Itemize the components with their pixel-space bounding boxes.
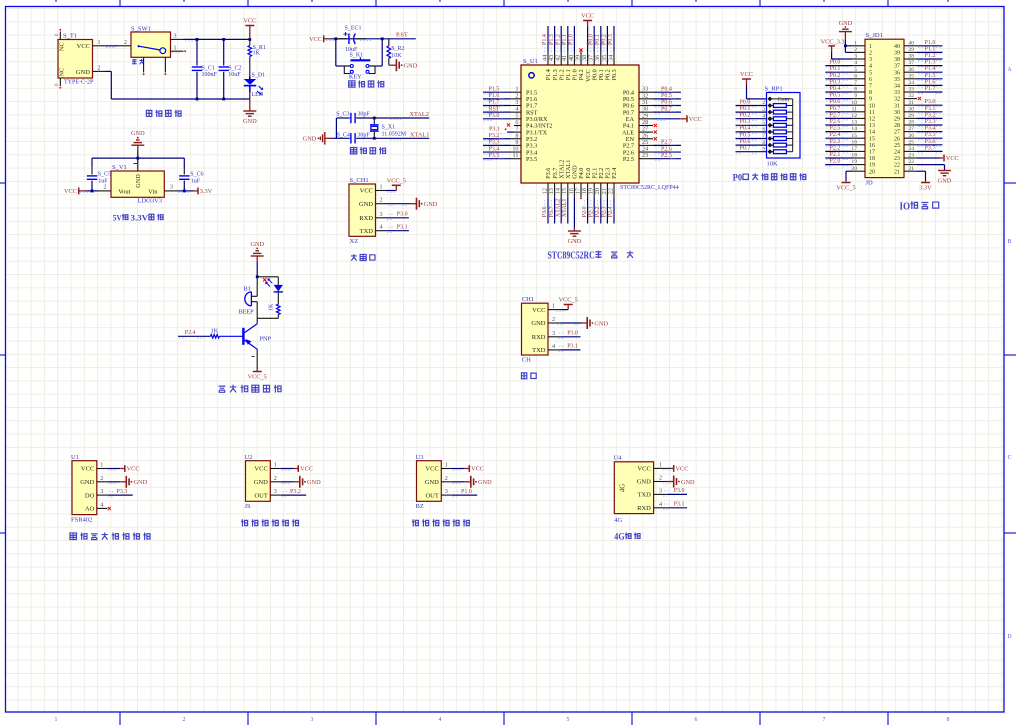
svg-text:VCC: VCC <box>127 466 140 473</box>
svg-text:4: 4 <box>380 224 383 231</box>
connector S_T1 TYPE-C-2P body <box>58 40 93 79</box>
svg-text:GND: GND <box>303 136 317 143</box>
svg-text:3: 3 <box>854 54 857 60</box>
svg-text:GND: GND <box>307 479 321 486</box>
svg-text:2: 2 <box>445 475 448 482</box>
svg-text:P0.6: P0.6 <box>661 100 672 106</box>
wire key left branch <box>335 39 337 66</box>
S_V1 pin 2 Vout stub <box>98 190 111 192</box>
svg-text:VCC_5: VCC_5 <box>387 178 406 185</box>
svg-text:JS: JS <box>245 503 252 510</box>
caption infrared obstacle module <box>412 519 469 526</box>
svg-text:32: 32 <box>909 93 915 99</box>
svg-text:GND: GND <box>250 241 264 248</box>
diode LED alarm <box>277 277 279 285</box>
module U1 body <box>72 461 97 515</box>
svg-text:S_R2: S_R2 <box>391 46 404 52</box>
svg-text:P1.3: P1.3 <box>925 60 936 66</box>
svg-text:3: 3 <box>170 185 173 191</box>
svg-text:P3.5: P3.5 <box>489 153 500 159</box>
junction C6 <box>183 190 186 193</box>
switch S_SW1 body <box>131 32 171 57</box>
connector S_CH1 download port body <box>349 184 376 236</box>
svg-text:S_K1: S_K1 <box>350 53 364 59</box>
connector CH1 serial port body <box>522 303 549 355</box>
svg-text:21: 21 <box>894 169 900 175</box>
svg-text:P2.1: P2.1 <box>588 206 594 217</box>
svg-text:3: 3 <box>869 57 872 63</box>
S_SW1 pin 3 stub <box>171 38 184 40</box>
svg-text:27: 27 <box>894 130 900 136</box>
svg-text:22: 22 <box>607 188 614 194</box>
svg-text:8: 8 <box>947 717 950 723</box>
svg-text:10K: 10K <box>391 53 402 59</box>
svg-text:8: 8 <box>869 90 872 96</box>
svg-text:1: 1 <box>380 184 383 191</box>
svg-text:S_RP1: S_RP1 <box>765 86 783 93</box>
node top of alarm branches <box>256 275 259 278</box>
svg-text:26: 26 <box>909 133 915 139</box>
svg-text:39: 39 <box>909 47 915 53</box>
svg-text:P3.0: P3.0 <box>567 331 578 337</box>
svg-text:P0.1: P0.1 <box>830 66 841 72</box>
XZ pin3 wire net P3.0 <box>386 217 409 219</box>
svg-text:VCC_3.3: VCC_3.3 <box>821 39 845 46</box>
svg-text:P2.3: P2.3 <box>830 139 841 145</box>
connector S_JD1 body <box>865 39 904 177</box>
svg-text:P3.6: P3.6 <box>925 139 936 145</box>
svg-text:34: 34 <box>894 84 900 90</box>
svg-text:5: 5 <box>854 67 857 73</box>
svg-text:XTAL1: XTAL1 <box>562 199 568 218</box>
svg-text:S_X1: S_X1 <box>382 125 396 131</box>
svg-text:VCC: VCC <box>689 116 702 123</box>
JD1 pin 22 to GND <box>917 164 945 166</box>
caption P0 pull-up resistor circuit <box>733 173 806 183</box>
svg-text:U4: U4 <box>614 455 623 462</box>
svg-text:P1.2: P1.2 <box>555 34 561 45</box>
svg-text:36: 36 <box>894 70 900 76</box>
svg-text:40: 40 <box>894 44 900 50</box>
XZ pin1 wire to VCC_5 <box>386 190 396 192</box>
svg-text:P3.1: P3.1 <box>674 502 685 508</box>
svg-text:10: 10 <box>869 103 875 109</box>
svg-text:1uF: 1uF <box>191 179 201 185</box>
junction rail-C1 <box>196 38 199 41</box>
caption 4G module <box>614 532 640 542</box>
RP1 pin 1 Com entry <box>767 96 772 101</box>
svg-text:1: 1 <box>98 40 101 46</box>
svg-text:12: 12 <box>869 117 875 123</box>
capacitor S_C6 1uF <box>183 158 185 167</box>
svg-text:1K: 1K <box>253 51 261 57</box>
svg-text:P1.6: P1.6 <box>925 79 936 85</box>
svg-text:AO: AO <box>85 506 95 513</box>
svg-text:4G: 4G <box>614 532 624 542</box>
svg-text:6: 6 <box>695 717 698 723</box>
svg-text:P1.1: P1.1 <box>562 34 568 45</box>
svg-text:OUT: OUT <box>254 492 267 499</box>
svg-text:S_CH1: S_CH1 <box>350 177 369 184</box>
caption IO expansion port <box>900 201 939 212</box>
svg-text:3: 3 <box>311 717 314 723</box>
wire XTAL1 lower line <box>331 137 349 139</box>
svg-text:S_C4: S_C4 <box>337 133 350 139</box>
U4 pin2 wire to GND <box>668 481 674 483</box>
svg-text:P3.5: P3.5 <box>526 156 537 163</box>
junction bottom rail C1 <box>196 98 199 101</box>
U4 pin3 wire net P3.0 <box>668 493 687 495</box>
junction rail-C2 <box>222 38 225 41</box>
svg-text:VCC: VCC <box>637 466 650 473</box>
junction xtal1 <box>373 137 376 140</box>
JD1 pin 21 to 3.3V <box>917 170 926 172</box>
svg-text:1K: 1K <box>211 328 219 334</box>
svg-text:3: 3 <box>174 34 177 40</box>
svg-text:P1.4: P1.4 <box>925 66 936 72</box>
svg-text:P1.4: P1.4 <box>542 34 548 45</box>
svg-text:1: 1 <box>445 462 448 469</box>
svg-text:P0.3: P0.3 <box>830 79 841 85</box>
svg-text:P0.7: P0.7 <box>740 146 751 152</box>
svg-text:P2.0: P2.0 <box>582 206 588 217</box>
junction rail-gnd <box>136 157 139 160</box>
svg-text:XTAL2: XTAL2 <box>555 199 561 218</box>
svg-text:P3.7: P3.7 <box>925 145 936 151</box>
buzzer B1 BEEP <box>256 277 258 297</box>
svg-text:P2.7: P2.7 <box>661 140 672 146</box>
svg-text:P1.5: P1.5 <box>925 73 936 79</box>
JD1 pin 20 to VCC_5 <box>846 170 852 172</box>
junction bottom rail C2 <box>222 98 225 101</box>
resistor S_R1 1K <box>249 39 251 45</box>
svg-text:S_T1: S_T1 <box>63 33 77 40</box>
svg-text:2: 2 <box>869 51 872 57</box>
svg-text:37: 37 <box>894 64 900 70</box>
svg-text:40: 40 <box>909 40 915 46</box>
wire VCC to Vout <box>85 190 98 192</box>
svg-text:P3.1: P3.1 <box>397 224 408 230</box>
svg-text:VCC_5: VCC_5 <box>248 374 267 381</box>
U4 pin4 wire net P3.1 <box>668 507 687 509</box>
U4 pin1 wire to VCC <box>668 467 670 469</box>
svg-text:S_C1: S_C1 <box>202 65 215 71</box>
svg-text:P3.4: P3.4 <box>489 146 500 152</box>
svg-text:Vin: Vin <box>148 188 158 195</box>
resistor 1K base with net P2.4 <box>178 335 211 337</box>
svg-text:10K: 10K <box>767 161 779 168</box>
svg-text:P3.1: P3.1 <box>567 344 578 350</box>
svg-text:13: 13 <box>869 123 875 129</box>
svg-text:GND: GND <box>243 118 257 125</box>
svg-text:30pF: 30pF <box>357 133 370 139</box>
svg-text:30pF: 30pF <box>357 112 370 118</box>
svg-text:2: 2 <box>659 475 662 482</box>
svg-text:100nF: 100nF <box>202 72 218 78</box>
CH pin3 wire net P3.0 <box>560 336 580 338</box>
ground symbol power circuit <box>249 99 251 111</box>
svg-text:GND: GND <box>135 174 142 188</box>
svg-text:STC89C52RC: STC89C52RC <box>548 251 595 262</box>
svg-text:P2.4: P2.4 <box>185 330 196 336</box>
svg-text:Com: Com <box>778 97 790 103</box>
svg-text:3.3V: 3.3V <box>200 188 213 195</box>
svg-text:38: 38 <box>894 57 900 63</box>
capacitor S_C2 10uF <box>223 39 225 65</box>
svg-text:28: 28 <box>909 120 915 126</box>
junction key-right <box>381 37 384 40</box>
svg-text:1: 1 <box>100 462 103 469</box>
svg-text:6: 6 <box>854 73 857 79</box>
svg-text:17: 17 <box>869 150 875 156</box>
resistor RP1 element 8 net P0.6 <box>736 144 768 146</box>
svg-text:4G: 4G <box>620 484 627 492</box>
svg-text:P3.2: P3.2 <box>925 112 936 118</box>
svg-text:GND: GND <box>531 320 545 327</box>
svg-text:S_SW1: S_SW1 <box>131 26 151 33</box>
svg-text:4: 4 <box>659 501 662 508</box>
svg-text:STC89C52RC_LQFP44: STC89C52RC_LQFP44 <box>620 185 679 191</box>
svg-text:RXD: RXD <box>637 505 651 512</box>
svg-text:S_D1: S_D1 <box>252 72 266 78</box>
svg-text:VCC: VCC <box>532 307 545 314</box>
svg-text:P1.2: P1.2 <box>925 53 936 59</box>
svg-text:LDO3V3: LDO3V3 <box>138 198 163 205</box>
svg-text:P0.2: P0.2 <box>740 113 751 119</box>
caption alarm circuit <box>218 385 281 393</box>
svg-text:VCC: VCC <box>471 466 484 473</box>
svg-text:3: 3 <box>380 211 383 218</box>
svg-text:NC: NC <box>59 42 66 51</box>
caption 5V to 3.3V circuit <box>113 213 163 223</box>
svg-text:Vout: Vout <box>118 188 130 195</box>
svg-text:P3.0: P3.0 <box>925 99 936 105</box>
svg-text:P0.5: P0.5 <box>740 132 751 138</box>
svg-text:3: 3 <box>552 330 555 337</box>
svg-text:U2: U2 <box>245 454 253 461</box>
svg-text:U3: U3 <box>416 454 424 461</box>
CH pin1 wire to VCC_5 <box>560 309 568 311</box>
svg-text:P2.5: P2.5 <box>830 126 841 132</box>
svg-text:S_EC1: S_EC1 <box>345 26 362 32</box>
svg-text:P0.4: P0.4 <box>830 86 841 92</box>
resistor RP1 element 3 net P0.1 <box>736 111 768 113</box>
svg-text:10uF: 10uF <box>228 72 241 78</box>
svg-text:LED: LED <box>252 92 264 98</box>
svg-text:1: 1 <box>55 717 58 723</box>
svg-text:10: 10 <box>851 100 857 106</box>
svg-text:8: 8 <box>854 87 857 93</box>
svg-text:P2.4: P2.4 <box>608 206 614 217</box>
svg-text:P0.2: P0.2 <box>602 34 608 45</box>
svg-text:P3.3: P3.3 <box>925 119 936 125</box>
svg-text:P0.4: P0.4 <box>661 86 672 92</box>
svg-text:20: 20 <box>851 166 857 172</box>
svg-text:GND: GND <box>76 69 90 76</box>
svg-text:VCC: VCC <box>740 71 753 78</box>
caption STC89C52RC main chip <box>548 251 634 262</box>
svg-text:GND: GND <box>594 320 608 327</box>
svg-text:2: 2 <box>98 66 101 72</box>
svg-text:27: 27 <box>909 126 915 132</box>
svg-text:XTAL1: XTAL1 <box>410 132 429 139</box>
svg-text:VCC: VCC <box>676 466 689 473</box>
junction rail-R1 <box>248 38 251 41</box>
resistor RP1 element 9 net P0.7 <box>736 151 768 153</box>
svg-text:30: 30 <box>894 110 900 116</box>
svg-text:1K: 1K <box>269 303 275 311</box>
svg-text:4: 4 <box>100 501 103 508</box>
switch S_SW1 contact graphic <box>138 45 140 47</box>
svg-text:3: 3 <box>274 488 277 495</box>
svg-text:VCC: VCC <box>425 466 438 473</box>
svg-text:P2.6: P2.6 <box>830 119 841 125</box>
svg-text:VCC: VCC <box>254 466 267 473</box>
svg-text:VCC_5: VCC_5 <box>836 185 855 192</box>
svg-text:5: 5 <box>869 70 872 76</box>
svg-text:24: 24 <box>909 146 915 152</box>
svg-text:GND: GND <box>254 479 268 486</box>
regulator S_V1 LDO3V3 body <box>111 171 164 197</box>
svg-text:21: 21 <box>909 166 915 172</box>
ground symbol reset <box>389 64 397 66</box>
svg-text:6: 6 <box>869 77 872 83</box>
svg-text:7: 7 <box>869 84 872 90</box>
power port VCC reset <box>323 35 325 42</box>
svg-text:BEEP: BEEP <box>239 309 255 316</box>
svg-text:2: 2 <box>274 475 277 482</box>
svg-text:P2.3: P2.3 <box>602 206 608 217</box>
ground symbol alarm top <box>251 255 264 257</box>
svg-text:GND: GND <box>424 201 438 208</box>
resistor 1K alarm vertical <box>277 292 279 304</box>
svg-text:P0.0: P0.0 <box>588 34 594 45</box>
svg-text:2: 2 <box>854 47 857 53</box>
svg-text:11: 11 <box>869 110 875 116</box>
key S_K1 contact brackets <box>344 66 350 74</box>
svg-text:P3.3: P3.3 <box>117 489 128 495</box>
svg-text:P0.3: P0.3 <box>608 34 614 45</box>
svg-text:OUT: OUT <box>425 492 438 499</box>
svg-text:P1.0: P1.0 <box>569 34 575 45</box>
module U3 body <box>417 461 442 502</box>
svg-text:P0.6: P0.6 <box>740 139 751 145</box>
svg-text:P2.1: P2.1 <box>830 152 841 158</box>
svg-text:14: 14 <box>851 126 857 132</box>
S_T1 pin 1 VCC stub <box>93 45 106 47</box>
svg-text:15: 15 <box>869 136 875 142</box>
wire S_T1 VCC to S_SW1 pin2 <box>106 45 119 47</box>
wire key right branch <box>381 39 383 66</box>
svg-text:P3.0: P3.0 <box>674 488 685 494</box>
svg-text:3: 3 <box>445 488 448 495</box>
svg-text:P3.1: P3.1 <box>925 106 936 112</box>
svg-text:9: 9 <box>854 93 857 99</box>
svg-text:35: 35 <box>894 77 900 83</box>
svg-text:34: 34 <box>607 55 614 61</box>
svg-text:GND: GND <box>134 479 148 486</box>
svg-text:13: 13 <box>851 120 857 126</box>
svg-text:11.0592M: 11.0592M <box>382 132 407 138</box>
svg-text:P1.1: P1.1 <box>925 46 936 52</box>
ground symbol under U1 <box>573 227 575 231</box>
resistor RP1 element 4 net P0.2 <box>736 118 768 120</box>
svg-text:BZ: BZ <box>416 503 424 510</box>
wire gnd down to node <box>256 262 258 277</box>
svg-text:P1.7: P1.7 <box>925 86 936 92</box>
svg-text:36: 36 <box>909 67 915 73</box>
transistor Q1 PNP <box>256 318 258 324</box>
svg-text:P2.4: P2.4 <box>830 132 841 138</box>
S_SW1 pin 1 stub unconnected <box>171 50 184 52</box>
power port VCC top of rail <box>245 25 254 27</box>
svg-text:9: 9 <box>869 97 872 103</box>
svg-text:2: 2 <box>104 185 107 191</box>
RP1 Com internal bus <box>772 98 793 100</box>
svg-text:S_U1: S_U1 <box>523 58 538 65</box>
svg-text:31: 31 <box>894 103 900 109</box>
caption crystal circuit <box>350 147 385 154</box>
wire XTAL2 upper line <box>336 117 349 119</box>
border zone ticks bottom <box>119 712 121 725</box>
S_V1 pin 3 Vin stub <box>164 190 177 192</box>
svg-text:23: 23 <box>909 153 915 159</box>
svg-text:5V: 5V <box>113 213 122 223</box>
svg-text:38: 38 <box>909 54 915 60</box>
svg-text:VCC: VCC <box>77 43 90 50</box>
JD1 pin 23 to VCC <box>917 157 940 159</box>
wire LED to ground rail <box>249 86 251 93</box>
svg-text:18: 18 <box>869 156 875 162</box>
svg-text:DO: DO <box>85 492 95 499</box>
svg-text:P3.0: P3.0 <box>489 113 500 119</box>
svg-text:20: 20 <box>869 169 875 175</box>
wire emitter to VCC_5 <box>256 349 258 369</box>
svg-text:3: 3 <box>659 487 662 494</box>
resistor RP1 element 7 net P0.5 <box>736 138 768 140</box>
svg-text:P0.1: P0.1 <box>595 34 601 45</box>
svg-text:P3.2: P3.2 <box>290 489 301 495</box>
svg-text:P3.2: P3.2 <box>489 133 500 139</box>
svg-text:P1.7: P1.7 <box>489 100 500 106</box>
svg-text:XZ: XZ <box>350 238 359 245</box>
svg-text:1: 1 <box>659 461 662 468</box>
XZ pin4 wire net P3.1 <box>386 230 409 232</box>
svg-text:P2.2: P2.2 <box>595 206 601 217</box>
svg-text:P2.5: P2.5 <box>623 156 634 163</box>
svg-text:VCC: VCC <box>300 466 313 473</box>
svg-text:5: 5 <box>567 717 570 723</box>
svg-text:P0: P0 <box>733 174 743 184</box>
ground symbol above LDO <box>131 144 144 146</box>
svg-text:P3.3: P3.3 <box>489 140 500 146</box>
svg-text:7: 7 <box>823 717 826 723</box>
svg-text:TXD: TXD <box>360 228 374 235</box>
svg-text:P.ST: P.ST <box>396 32 408 39</box>
junction key-left <box>334 37 337 40</box>
svg-text:GND: GND <box>80 479 94 486</box>
resistor RP1 element 2 net P0.0 <box>736 105 768 107</box>
svg-text:P1.5: P1.5 <box>489 86 500 92</box>
label kaiguan under switch <box>132 59 144 65</box>
S_T1 bottom NC pin stub with no-connect <box>59 78 61 86</box>
wire LDO top rail <box>92 157 184 159</box>
svg-text:17: 17 <box>851 146 857 152</box>
svg-text:GND: GND <box>681 479 695 486</box>
caption film pressure module <box>70 533 150 540</box>
svg-text:GND: GND <box>637 479 651 486</box>
svg-text:VCC_5: VCC_5 <box>559 297 578 304</box>
